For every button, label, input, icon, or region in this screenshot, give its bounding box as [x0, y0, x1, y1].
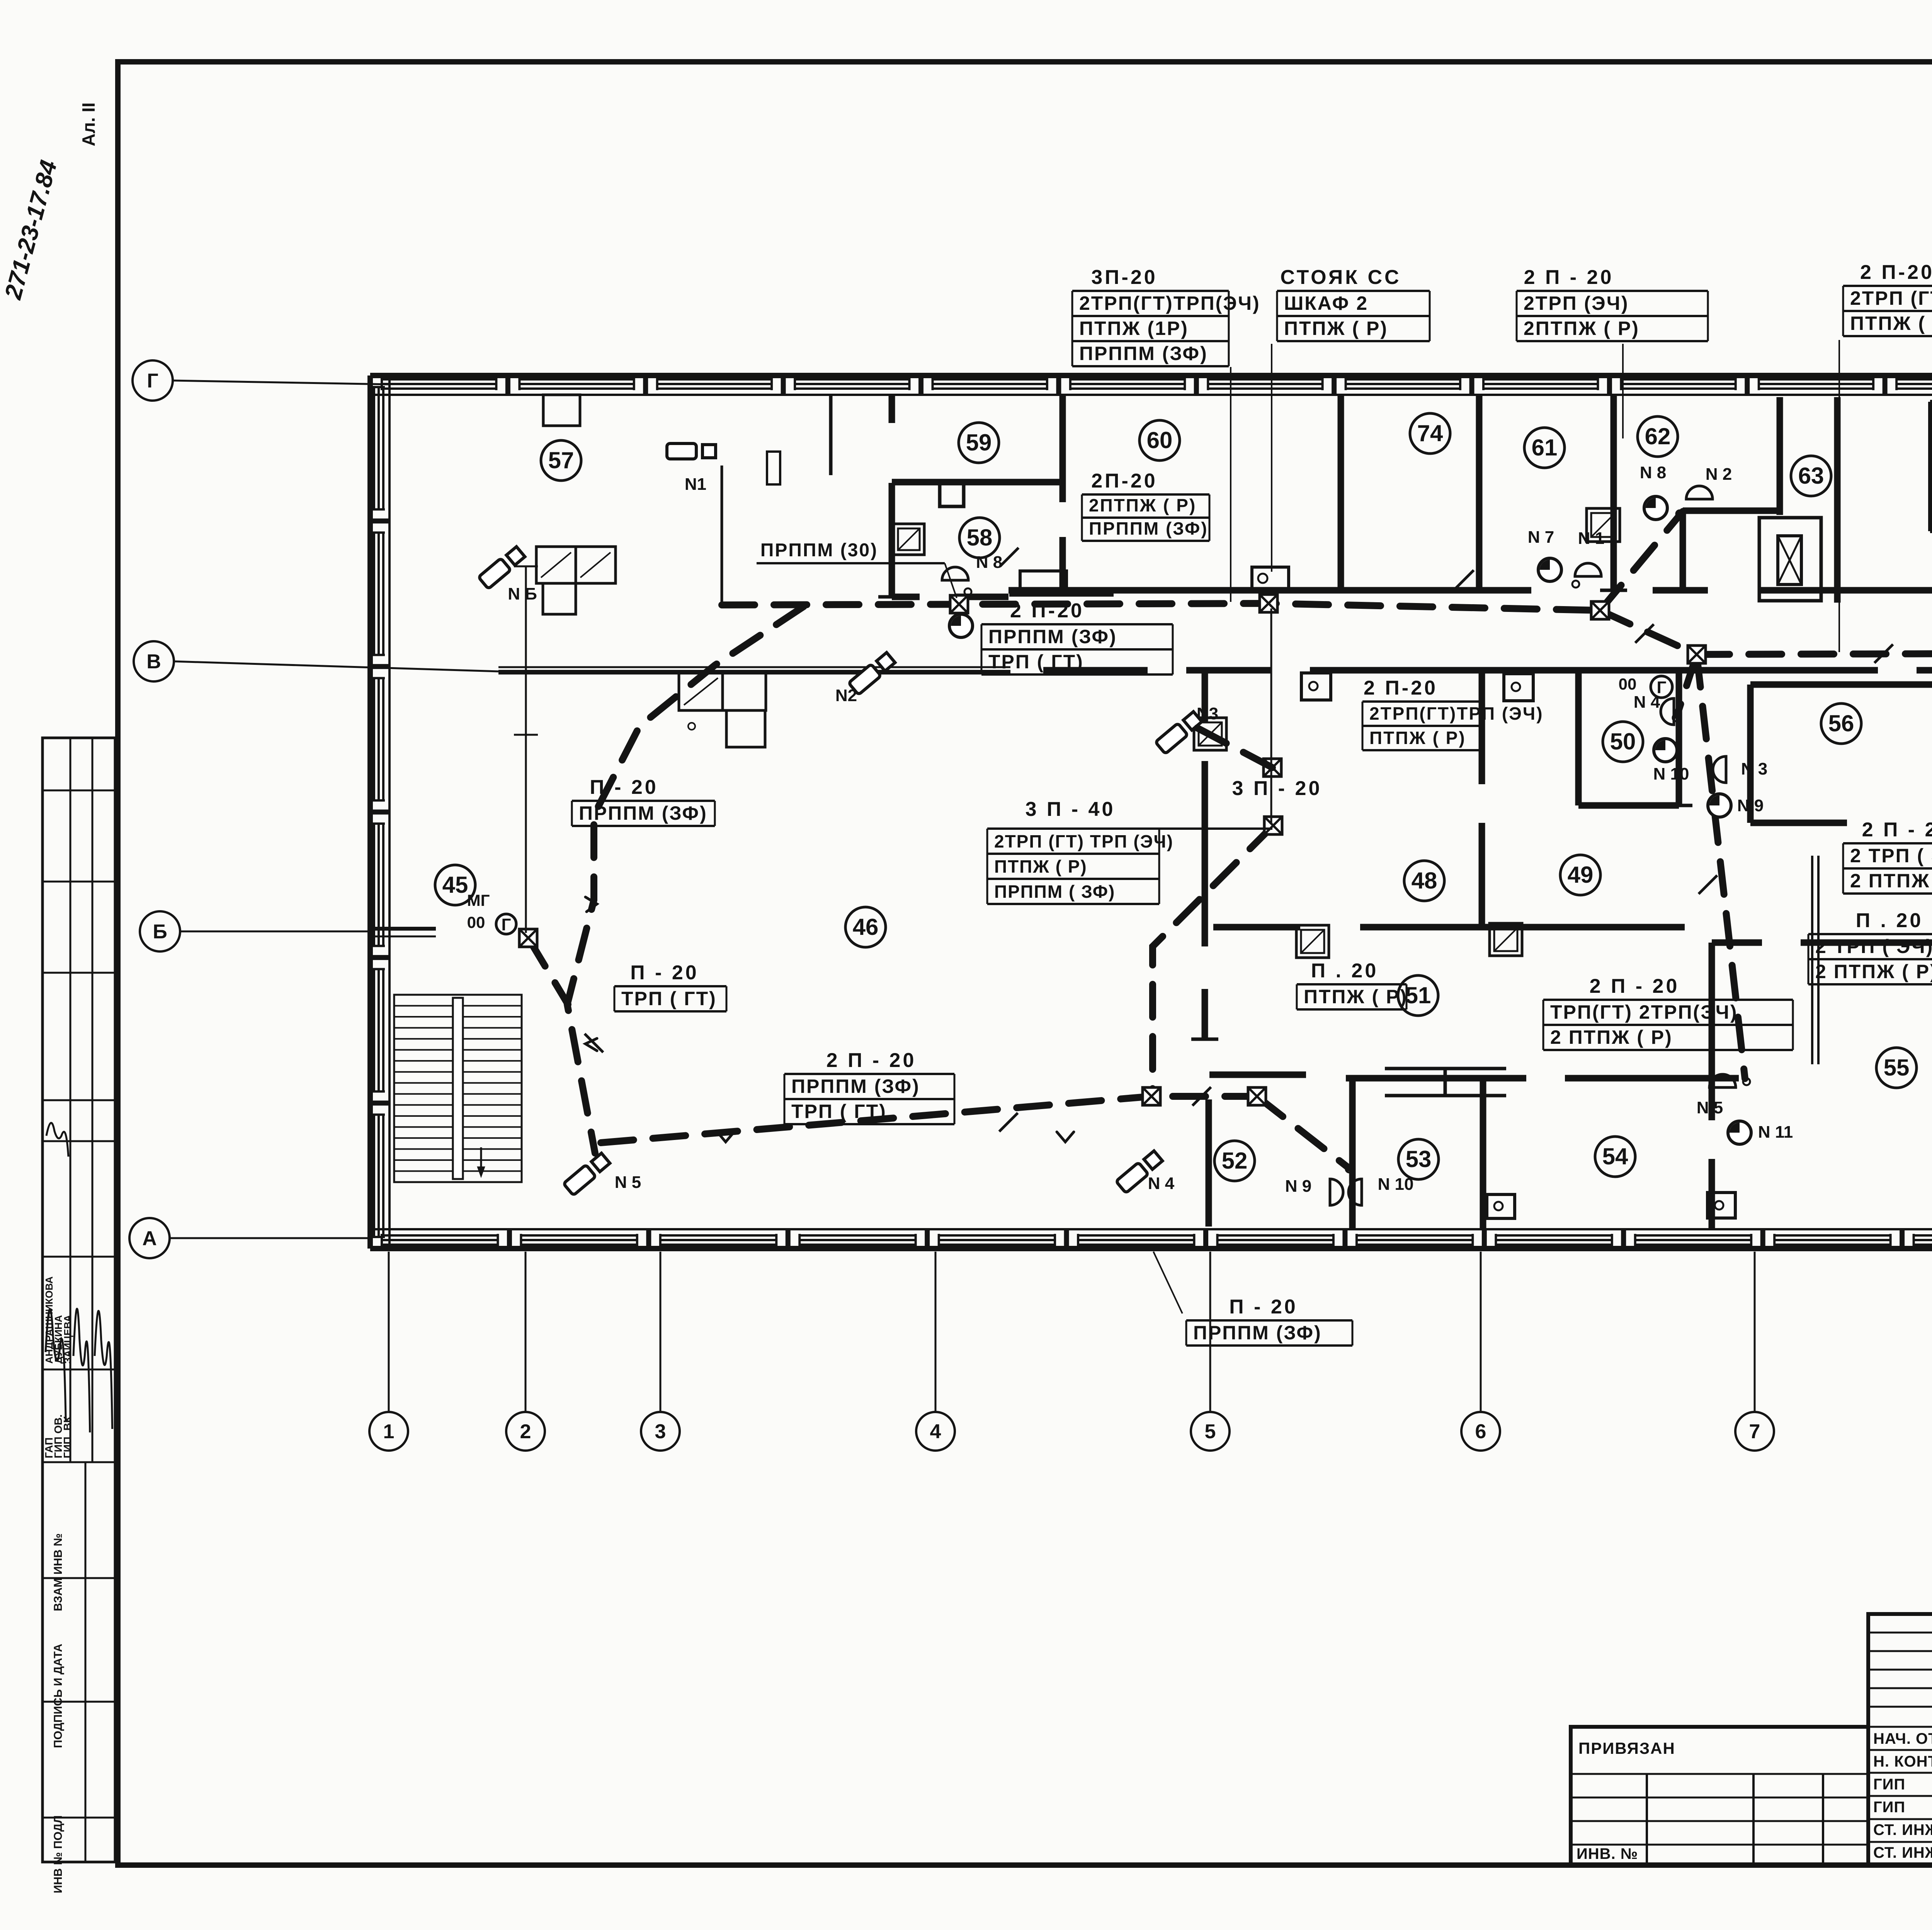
svg-text:52: 52 [1222, 1148, 1248, 1174]
dome N9 bottom [1330, 1179, 1343, 1205]
svg-text:N 5: N 5 [615, 1173, 641, 1192]
svg-text:П - 20: П - 20 [1229, 1296, 1298, 1318]
node room 50 [1603, 722, 1643, 762]
svg-text:НАЧ. ОТД.: НАЧ. ОТД. [1873, 1730, 1932, 1747]
svg-text:3 П - 20: 3 П - 20 [1232, 777, 1322, 800]
svg-text:6: 6 [1475, 1420, 1486, 1443]
partition 61|62 [1611, 395, 1617, 590]
speaker N5 bottom left [563, 1152, 611, 1196]
trunk D corridor middle [1697, 654, 1932, 654]
svg-text:49: 49 [1568, 862, 1594, 888]
svg-text:N Б: N Б [508, 584, 537, 603]
svg-text:ПРППМ (30): ПРППМ (30) [760, 540, 878, 561]
svg-text:ЗАЙЦЕВА: ЗАЙЦЕВА [62, 1315, 73, 1364]
bench room 58 [1020, 571, 1066, 593]
partition 57|58-59 [889, 395, 895, 423]
svg-text:56: 56 [1828, 710, 1854, 736]
svg-text:N 11: N 11 [1758, 1123, 1793, 1142]
clock N11 [1728, 1121, 1751, 1144]
niche room 58 top wall [940, 481, 964, 506]
sink room 51 left [1296, 925, 1329, 958]
svg-text:ПРППМ (ЗФ): ПРППМ (ЗФ) [1079, 343, 1208, 364]
speaker N4 bottom hall [1116, 1150, 1163, 1193]
svg-text:ТРП ( ГТ): ТРП ( ГТ) [791, 1101, 887, 1122]
svg-text:2ТРП(ГТ)ТРП(ЭЧ): 2ТРП(ГТ)ТРП(ЭЧ) [1079, 292, 1260, 314]
svg-text:ИНВ. №: ИНВ. № [1577, 1845, 1638, 1862]
svg-text:00: 00 [1619, 675, 1637, 693]
dimension line room 45 [525, 566, 527, 933]
svg-text:ПРИВЯЗАН: ПРИВЯЗАН [1578, 1739, 1675, 1757]
svg-text:2ТРП (ГТ)ТРП(ЭЧ): 2ТРП (ГТ)ТРП(ЭЧ) [1850, 287, 1932, 309]
partition 52|53 [1349, 1078, 1356, 1229]
dome N8 room 58 [942, 567, 968, 580]
slim box on top wall [767, 452, 780, 484]
svg-text:5: 5 [1205, 1420, 1216, 1443]
svg-text:50: 50 [1610, 729, 1636, 754]
grid 5 leader [1209, 1252, 1211, 1412]
svg-text:ПРППМ (ЗФ): ПРППМ (ЗФ) [791, 1075, 920, 1097]
dome N2 [1686, 486, 1713, 499]
svg-text:ПТПЖ ( Р): ПТПЖ ( Р) [1369, 728, 1466, 748]
sink room 58 left [893, 524, 924, 555]
o-box fixture wall rooms 48 right [1504, 674, 1533, 701]
title block outline [1868, 1614, 1932, 1865]
svg-text:00: 00 [467, 913, 485, 931]
grid 4 circle [916, 1412, 955, 1451]
node room 60 [1139, 420, 1180, 460]
svg-text:48: 48 [1412, 868, 1437, 894]
trunk L from label to junction [1153, 826, 1273, 1096]
staircase left [394, 995, 522, 1182]
svg-text:2 П - 20: 2 П - 20 [1862, 819, 1932, 841]
svg-text:ТРП ( ГТ): ТРП ( ГТ) [988, 651, 1084, 673]
svg-text:СТ. ИНЖ.: СТ. ИНЖ. [1873, 1821, 1932, 1838]
leader label T tail [1153, 1252, 1182, 1313]
wall stub room 57 right [829, 395, 833, 475]
svg-text:2 П - 20: 2 П - 20 [1524, 266, 1614, 289]
svg-text:45: 45 [442, 872, 468, 898]
corridor bottom wall middle [1043, 667, 1148, 674]
svg-text:2ТРП (ГТ) ТРП (ЭЧ): 2ТРП (ГТ) ТРП (ЭЧ) [994, 831, 1173, 851]
node room 46 [845, 907, 886, 947]
svg-text:57: 57 [548, 447, 574, 473]
clock N8 [1644, 496, 1667, 520]
partition 74|61 [1476, 395, 1483, 590]
grid 3 leader [660, 1252, 662, 1412]
partition 62|63 [1777, 397, 1783, 515]
svg-text:ПТПЖ ( Р): ПТПЖ ( Р) [994, 856, 1087, 877]
tv box room 62 [1587, 508, 1620, 542]
axis А circle [129, 1218, 170, 1258]
partition rooms 47|48 and 51 left [1202, 670, 1208, 722]
svg-text:N 1: N 1 [1578, 529, 1604, 548]
svg-text:61: 61 [1532, 435, 1558, 460]
svg-text:N3: N3 [1197, 704, 1218, 723]
clock N10 room 50 [1654, 739, 1677, 762]
leader label B [1271, 344, 1272, 572]
room 50 left wall [1575, 670, 1582, 805]
svg-text:2: 2 [520, 1420, 531, 1443]
partition 48|49 [1479, 670, 1485, 784]
axis Б circle [140, 911, 180, 951]
dome N4 room 50 [1661, 698, 1674, 725]
svg-text:54: 54 [1602, 1143, 1628, 1169]
side stamp table [43, 738, 115, 1862]
dome N5 room 54 [1709, 1074, 1736, 1087]
trunk A horizontal rooms 57-60 [722, 603, 1600, 610]
partition 53|54 [1480, 1080, 1486, 1229]
node room 45 [435, 865, 475, 905]
svg-text:3: 3 [655, 1420, 666, 1443]
svg-text:4: 4 [930, 1420, 941, 1443]
svg-text:ГИП. ВК: ГИП. ВК [61, 1416, 73, 1458]
leader label G tail [945, 563, 957, 598]
svg-text:ПТПЖ ( Р): ПТПЖ ( Р) [1284, 318, 1388, 339]
room 56 walls [1750, 681, 1932, 688]
node room 52 [1214, 1141, 1255, 1181]
wall rooms 48-49 bottom [1213, 924, 1300, 931]
leader vertical from trunk to 3П-20 [1270, 608, 1272, 824]
axis Б wall stub [370, 927, 436, 931]
grid 5 circle [1191, 1412, 1230, 1451]
room 52 left wall [1206, 1099, 1212, 1227]
trunk H down through rooms 50-54 [1697, 654, 1745, 1079]
svg-text:2 ТРП ( ЭЧ): 2 ТРП ( ЭЧ) [1850, 845, 1932, 866]
svg-text:ПРППМ (ЗФ): ПРППМ (ЗФ) [579, 802, 707, 824]
niche box at junction 3283 [1252, 567, 1289, 590]
axis Г circle [133, 360, 173, 401]
svg-text:ГИП: ГИП [1873, 1776, 1905, 1793]
node room 48 [1404, 861, 1444, 901]
wall axis В left part [498, 670, 1010, 674]
svg-text:2 ТРП ( ЭЧ): 2 ТРП ( ЭЧ) [1815, 936, 1932, 957]
axis Г leader [173, 381, 390, 384]
svg-text:ТРП(ГТ) 2ТРП(ЭЧ): ТРП(ГТ) 2ТРП(ЭЧ) [1550, 1001, 1738, 1023]
trunk B to N8/N2 [1600, 511, 1683, 610]
wall room 50 bottom [1578, 802, 1679, 809]
svg-text:ПТПЖ ( Р): ПТПЖ ( Р) [1850, 313, 1932, 334]
svg-text:ПОДПИСЬ И ДАТА: ПОДПИСЬ И ДАТА [52, 1644, 65, 1748]
svg-text:7: 7 [1749, 1420, 1760, 1443]
grid 6 leader [1480, 1252, 1482, 1412]
speaker N3 hall [1155, 711, 1202, 754]
corridor top wall middle [1009, 587, 1531, 594]
svg-text:N 3: N 3 [1741, 759, 1767, 778]
wall rooms 52-54 top [1209, 1072, 1306, 1078]
wall room 55 top [1712, 940, 1762, 946]
room 58 bottom wall [892, 594, 920, 600]
machine box on top wall room 57 [543, 395, 580, 426]
leader label C [1622, 344, 1624, 438]
svg-text:62: 62 [1645, 423, 1671, 449]
svg-text:Б: Б [153, 921, 167, 943]
title block small grid rows [1868, 1632, 1932, 1634]
svg-text:СТОЯК СС: СТОЯК СС [1280, 266, 1401, 289]
svg-text:58: 58 [967, 525, 993, 550]
svg-text:N 4: N 4 [1148, 1174, 1175, 1193]
svg-text:N 9: N 9 [1285, 1177, 1311, 1196]
arrow marks on trunks [717, 1132, 734, 1142]
svg-text:2 ПТПЖ ( Р): 2 ПТПЖ ( Р) [1550, 1026, 1673, 1048]
svg-text:ПРППМ (ЗФ): ПРППМ (ЗФ) [1089, 518, 1208, 539]
svg-text:А: А [142, 1227, 157, 1250]
trunk N from MG box [528, 938, 568, 1004]
svg-text:46: 46 [853, 914, 879, 940]
grid 3 circle [641, 1412, 680, 1451]
clock N7 [1538, 558, 1561, 581]
title extension rows [1571, 1773, 1868, 1775]
node room 58 [959, 518, 1000, 558]
exterior wall left (axis 1) with windows [367, 375, 373, 1249]
svg-text:ШКАФ 2: ШКАФ 2 [1284, 292, 1368, 314]
svg-text:3П-20: 3П-20 [1091, 266, 1157, 289]
grid 6 circle [1461, 1412, 1500, 1451]
axis В leader [174, 661, 498, 671]
node room 59 [959, 423, 999, 463]
sink room 49 left [1490, 923, 1522, 956]
node room 54 [1595, 1137, 1635, 1177]
svg-text:1: 1 [383, 1420, 395, 1443]
svg-text:74: 74 [1417, 420, 1443, 446]
svg-text:N 9: N 9 [1737, 796, 1764, 815]
dome N1 [1575, 563, 1601, 576]
svg-text:Г: Г [147, 370, 158, 392]
vent unit in room 57 [536, 547, 616, 583]
speaker N6 room 45 [478, 546, 526, 589]
svg-text:ИНВ № ПОДЛ: ИНВ № ПОДЛ [52, 1815, 65, 1893]
clock room 58 [949, 614, 973, 637]
svg-text:2 П - 20: 2 П - 20 [1590, 975, 1680, 997]
svg-text:ПРППМ (ЗФ): ПРППМ (ЗФ) [1193, 1322, 1322, 1344]
room 62 bottom wall [1683, 508, 1780, 514]
trunk J hall left descent [567, 607, 804, 1153]
axis Б leader [180, 931, 370, 933]
svg-text:51: 51 [1405, 982, 1431, 1008]
wall end caps [878, 595, 905, 599]
exterior wall bottom left building (axis А) with windows [370, 1246, 1932, 1251]
sink near N3 speaker [1194, 718, 1226, 750]
node room 63 [1791, 456, 1831, 496]
svg-text:Ал. II: Ал. II [78, 102, 99, 146]
svg-text:П - 20: П - 20 [630, 962, 699, 984]
partition 63|64 [1834, 397, 1841, 603]
svg-text:П . 20: П . 20 [1311, 960, 1379, 982]
speaker N1 [667, 443, 716, 459]
grid 2 leader [525, 1252, 527, 1412]
grid 2 circle [506, 1412, 545, 1451]
trunk M to domes N9 N10 [1257, 1096, 1349, 1168]
svg-text:Н. КОНТР: Н. КОНТР [1873, 1753, 1932, 1770]
partition 54|55 [1709, 943, 1715, 1120]
svg-text:2 П-20: 2 П-20 [1364, 677, 1438, 699]
grid 1 circle [369, 1412, 408, 1451]
svg-text:2ТРП (ЭЧ): 2ТРП (ЭЧ) [1524, 292, 1629, 314]
svg-text:ПРППМ ( ЗФ): ПРППМ ( ЗФ) [994, 882, 1115, 902]
grid 7 circle [1735, 1412, 1774, 1451]
axis А leader [170, 1237, 370, 1239]
svg-text:ПТПЖ (1Р): ПТПЖ (1Р) [1079, 318, 1189, 339]
trunk C J1-J2 [1600, 610, 1697, 654]
axis В circle [134, 641, 174, 681]
svg-text:Г: Г [1657, 678, 1667, 697]
partition 60|74 [1338, 395, 1344, 590]
junction boxes [950, 595, 968, 613]
svg-text:2 П-20: 2 П-20 [1010, 600, 1084, 622]
node room 56 [1821, 703, 1861, 744]
thin partial wall right of 54 [1811, 856, 1813, 1064]
trunk spur from junction 3293 into hall [1181, 719, 1272, 768]
grid 7 leader [1754, 1252, 1756, 1412]
room 64 inner walls [1928, 402, 1932, 531]
o-box fixture bottom wall near 53 [1487, 1194, 1515, 1218]
svg-text:63: 63 [1798, 463, 1824, 489]
leader label D [1838, 340, 1840, 652]
svg-text:2ПТПЖ ( Р): 2ПТПЖ ( Р) [1089, 495, 1196, 515]
svg-text:2П-20: 2П-20 [1091, 470, 1157, 492]
svg-text:59: 59 [966, 430, 992, 455]
svg-text:СТ. ИНЖ: СТ. ИНЖ [1873, 1844, 1932, 1861]
svg-text:П . 20: П . 20 [1856, 909, 1923, 932]
o-box fixture wall rooms 48 left [1301, 673, 1331, 700]
svg-text:2 П-20: 2 П-20 [1860, 261, 1932, 284]
exterior wall top (axis Г) with windows [370, 373, 1932, 378]
dome N3 room 56 [1713, 756, 1726, 783]
trunk K hall bottom horizontal [601, 1096, 1257, 1143]
o-box fixture bottom wall near 54 [1708, 1193, 1735, 1218]
svg-text:2 П - 20: 2 П - 20 [827, 1049, 917, 1072]
svg-text:МГ: МГ [467, 891, 490, 909]
side stamp signatures scribbles [46, 1309, 66, 1422]
svg-text:N 8: N 8 [1640, 463, 1666, 482]
svg-text:ПРППМ (ЗФ): ПРППМ (ЗФ) [988, 626, 1117, 647]
partition 58|60 [1060, 395, 1066, 502]
grid 1 leader [388, 1252, 390, 1412]
clock N9 room 56 [1708, 794, 1731, 817]
svg-text:60: 60 [1147, 427, 1173, 453]
trunk I short into room 50 [1677, 654, 1697, 715]
svg-text:N2: N2 [835, 686, 857, 705]
svg-text:В: В [146, 651, 161, 673]
room 50 right wall [1676, 670, 1682, 805]
node room 74 [1410, 413, 1450, 454]
room 58|59 divider wall [892, 479, 1063, 486]
node room 55 [1876, 1048, 1917, 1088]
svg-text:53: 53 [1406, 1146, 1432, 1172]
svg-text:ГИП: ГИП [1873, 1799, 1905, 1816]
elevator shaft near room 63 [1759, 518, 1821, 601]
vent unit in hall below wall B [679, 672, 766, 710]
svg-text:2 ПТПЖ ( Р): 2 ПТПЖ ( Р) [1815, 961, 1932, 982]
svg-text:3 П - 40: 3 П - 40 [1026, 798, 1116, 821]
node room 49 [1560, 855, 1600, 895]
dome N10 bottom [1349, 1179, 1362, 1205]
node room 51 [1398, 975, 1438, 1016]
svg-text:N1: N1 [685, 475, 706, 494]
speaker N2 [849, 652, 896, 695]
node room 57 [541, 440, 581, 481]
svg-text:N 5: N 5 [1697, 1098, 1723, 1117]
svg-text:2 ПТПЖ ( Р): 2 ПТПЖ ( Р) [1850, 870, 1932, 892]
svg-text:N 2: N 2 [1706, 465, 1732, 484]
svg-text:55: 55 [1884, 1055, 1910, 1081]
title block name rows [1868, 1749, 1932, 1751]
node room 61 [1524, 428, 1565, 468]
tick marks on trunks [1000, 548, 1019, 566]
node room 53 [1398, 1139, 1439, 1179]
svg-text:N 10: N 10 [1653, 765, 1689, 783]
svg-text:ТРП ( ГТ): ТРП ( ГТ) [621, 988, 717, 1009]
leader label A [1230, 367, 1231, 602]
svg-text:N 7: N 7 [1528, 528, 1554, 547]
svg-text:ВЗАМ ИНВ №: ВЗАМ ИНВ № [52, 1533, 65, 1611]
node room 62 [1638, 416, 1678, 457]
grid 4 leader [935, 1252, 937, 1412]
svg-text:2ТРП(ГТ)ТРП (ЭЧ): 2ТРП(ГТ)ТРП (ЭЧ) [1369, 703, 1544, 724]
room 53 niche band [1385, 1067, 1506, 1070]
svg-text:Г: Г [502, 915, 511, 934]
svg-text:П - 20: П - 20 [590, 776, 658, 799]
svg-text:2ПТПЖ ( Р): 2ПТПЖ ( Р) [1524, 318, 1639, 339]
svg-text:ПТПЖ ( Р): ПТПЖ ( Р) [1304, 986, 1408, 1007]
